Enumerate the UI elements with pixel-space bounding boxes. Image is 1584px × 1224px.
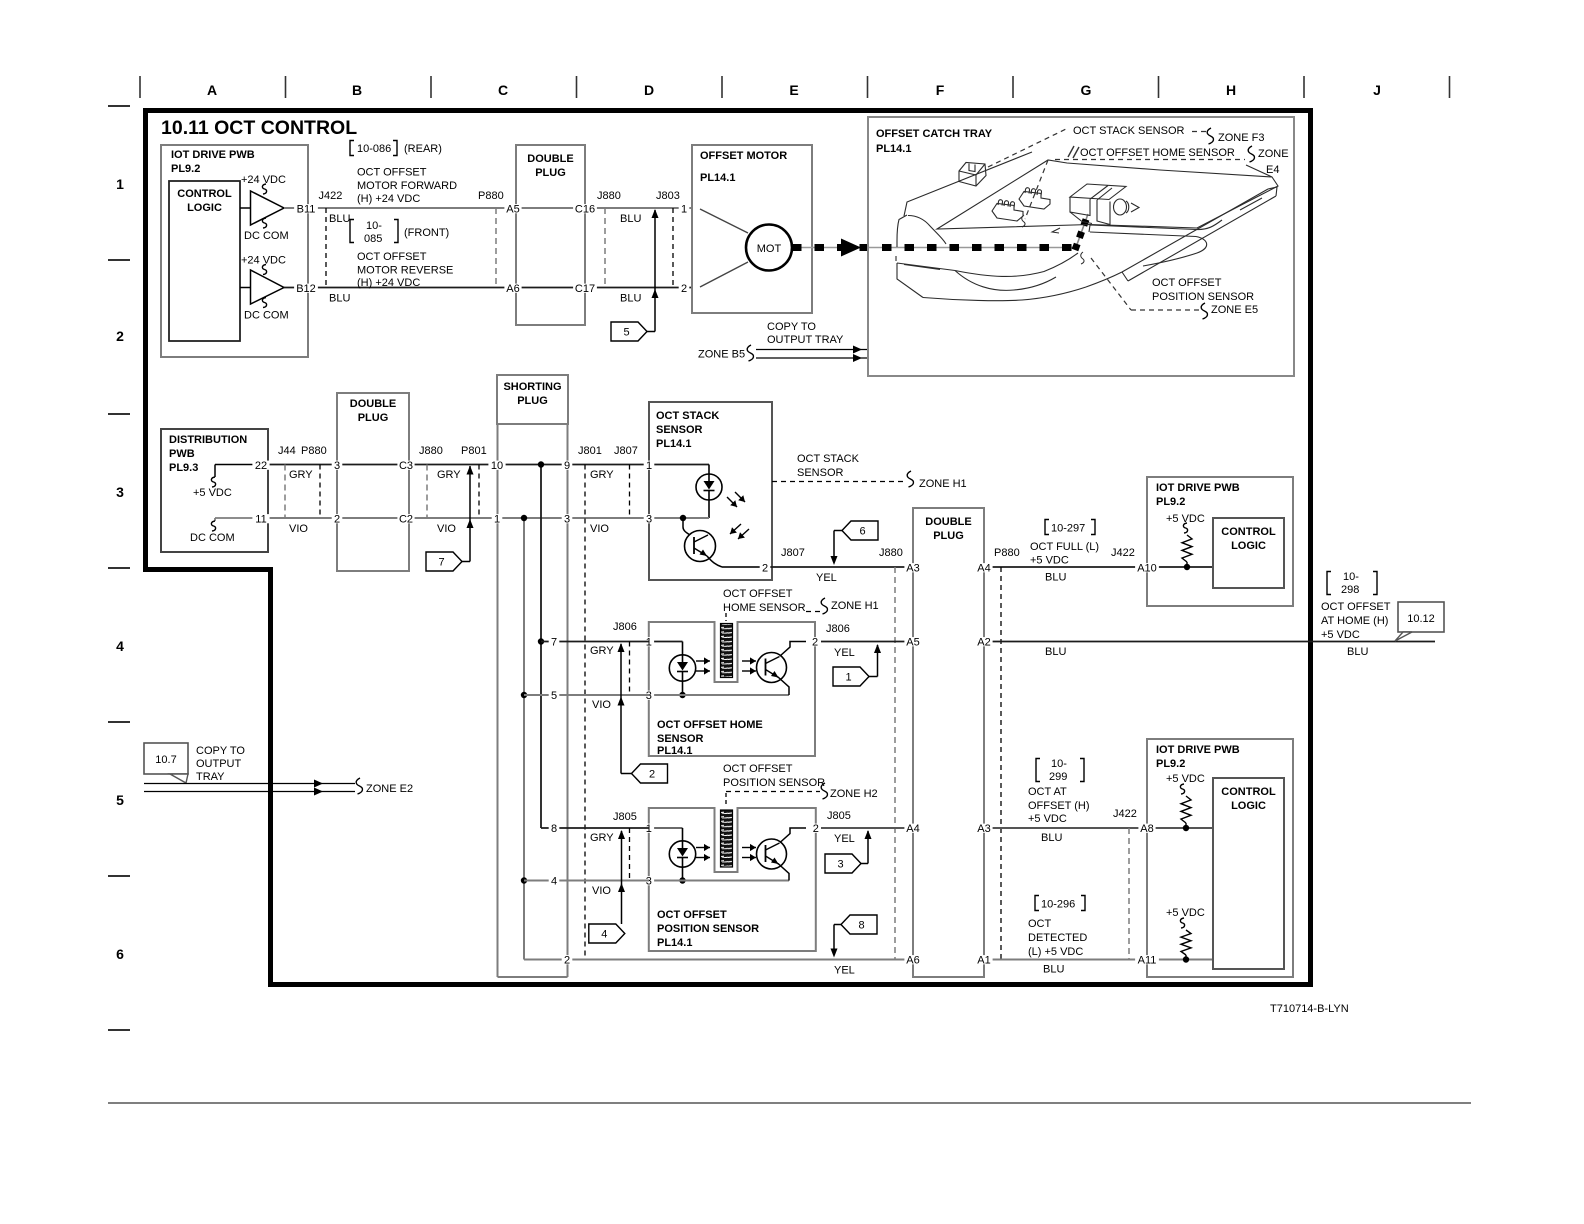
svg-text:J806: J806 (826, 623, 850, 635)
pin label 10 (488, 461, 505, 470)
fault bracket 10-296 (1035, 896, 1085, 911)
svg-text:10-296: 10-296 (1041, 899, 1075, 911)
home sensor light arrows (696, 657, 756, 674)
svg-text:LOGIC: LOGIC (1231, 800, 1266, 812)
long connector dash J801 (to row6) (584, 465, 586, 960)
pin label 5 (549, 691, 560, 700)
svg-text:BLU: BLU (329, 293, 350, 305)
control logic U1 box (169, 181, 240, 341)
svg-text:5: 5 (623, 327, 629, 339)
svg-text:5: 5 (116, 792, 124, 808)
svg-text:A5: A5 (506, 204, 519, 216)
diagram outer border (146, 111, 1311, 985)
flag 8 pointer (831, 915, 878, 958)
svg-text:G: G (1081, 82, 1092, 98)
pin label 2 (J803) (679, 284, 690, 293)
pin label B12 (294, 284, 318, 293)
svg-text:7: 7 (551, 637, 557, 649)
svg-text:VIO: VIO (592, 885, 611, 897)
svg-text:3: 3 (564, 514, 570, 526)
svg-text:OUTPUT: OUTPUT (196, 758, 242, 770)
svg-text:BLU: BLU (1043, 964, 1064, 976)
svg-text:DC COM: DC COM (244, 310, 289, 322)
svg-text:MOT: MOT (757, 243, 782, 255)
signal name OCT OFFSET MOTOR REVERSE (357, 251, 453, 289)
svg-text:VIO: VIO (437, 523, 456, 535)
pin label 3 (shorting plug right) (562, 514, 573, 523)
svg-text:E4: E4 (1266, 164, 1279, 176)
pin label 2 (position sensor) (811, 824, 822, 833)
row3 connector labels (278, 445, 638, 535)
mechanical drive dashed link to tray (792, 214, 1088, 257)
pin label 3 (stack sensor) (644, 514, 655, 523)
signal name OCT OFFSET MOTOR FORWARD (357, 167, 457, 206)
pin label 7 (549, 637, 560, 646)
svg-text:A10: A10 (1137, 563, 1157, 575)
svg-text:COPY TO: COPY TO (767, 321, 816, 333)
pin label A5 (row4) (904, 637, 921, 646)
svg-text:1: 1 (646, 460, 652, 472)
svg-text:+5 VDC: +5 VDC (1030, 555, 1069, 567)
svg-text:YEL: YEL (816, 572, 837, 584)
svg-text:4: 4 (551, 876, 557, 888)
svg-text:ZONE H1: ZONE H1 (831, 600, 879, 612)
svg-text:CONTROL: CONTROL (1221, 786, 1276, 798)
svg-text:A11: A11 (1138, 955, 1157, 967)
off-page reference 10.12 (1395, 602, 1444, 641)
pin label 1 (J803) (679, 204, 690, 213)
svg-text:A4: A4 (906, 823, 919, 835)
svg-text:10.12: 10.12 (1407, 613, 1435, 625)
svg-text:3: 3 (837, 859, 843, 871)
control logic U3 box (1213, 778, 1284, 969)
connector dashes J422/P880/J880/J803 rows1-2 (326, 208, 673, 288)
svg-text:J801: J801 (578, 445, 602, 457)
pin label A1 (975, 955, 992, 964)
off-page reference 10.7 (144, 743, 188, 783)
long connector dash P880 (black) (1000, 567, 1002, 960)
pull-up resistor R3 (1166, 907, 1205, 963)
driver amp A1 (B11) (240, 174, 289, 242)
wire B11 motor forward (gray) (284, 207, 692, 209)
row separator dashes (108, 106, 130, 1030)
svg-text:OCT STACK SENSOR: OCT STACK SENSOR (1073, 125, 1185, 137)
svg-text:ZONE: ZONE (1258, 148, 1289, 160)
svg-text:OCT OFFSET: OCT OFFSET (1152, 277, 1222, 289)
IOT DRIVE PWB box (rows5-6 right) (1147, 739, 1293, 977)
svg-text:MOTOR FORWARD: MOTOR FORWARD (357, 180, 457, 192)
svg-text:J422: J422 (1111, 547, 1135, 559)
svg-text:IOT DRIVE PWB: IOT DRIVE PWB (1156, 482, 1240, 494)
svg-text:PWB: PWB (169, 448, 195, 460)
tray label OCT STACK SENSOR + zone F3 (988, 125, 1264, 167)
svg-text:E: E (789, 82, 798, 98)
svg-text:PL14.1: PL14.1 (876, 143, 911, 155)
svg-text:A2: A2 (977, 637, 990, 649)
svg-text:C16: C16 (575, 204, 595, 216)
pin label 2 (shorting plug bottom) (562, 955, 573, 964)
svg-text:P880: P880 (301, 445, 327, 457)
svg-text:OCT FULL (L): OCT FULL (L) (1030, 541, 1099, 553)
signal name OCT FULL (1030, 541, 1099, 567)
flag 6 pointer (831, 521, 879, 565)
position sensor flag actuator (hatched) (721, 810, 733, 867)
svg-text:HOME SENSOR: HOME SENSOR (723, 602, 806, 614)
svg-text:ZONE H2: ZONE H2 (830, 788, 878, 800)
bottom rule (108, 1102, 1471, 1104)
svg-text:PL14.1: PL14.1 (656, 438, 691, 450)
svg-text:C2: C2 (399, 514, 413, 526)
svg-text:7: 7 (438, 557, 444, 569)
svg-text:OFFSET MOTOR: OFFSET MOTOR (700, 150, 787, 162)
stack sensor LED D1 (649, 465, 722, 519)
svg-text:22: 22 (255, 460, 267, 472)
svg-text:MOTOR REVERSE: MOTOR REVERSE (357, 265, 453, 277)
stack sensor received light arrows (730, 524, 749, 539)
fault bracket 10-297 (1045, 520, 1095, 535)
svg-text:085: 085 (364, 233, 382, 245)
tray label OCT OFFSET POSITION SENSOR + zone E5 (1091, 258, 1258, 319)
copy to output tray (zone B5) paper path (698, 321, 868, 362)
svg-text:5: 5 (551, 690, 557, 702)
pull-up resistor R1 (1166, 513, 1205, 570)
stack sensor phototransistor Q1 (649, 515, 772, 567)
svg-text:OUTPUT TRAY: OUTPUT TRAY (767, 334, 844, 346)
svg-text:+5 VDC: +5 VDC (1166, 773, 1205, 785)
svg-text:ZONE H1: ZONE H1 (919, 478, 967, 490)
svg-text:J803: J803 (656, 190, 680, 202)
IOT DRIVE PWB box (row3 right) (1147, 477, 1293, 606)
zone label OCT OFFSET POSITION SENSOR H2 (723, 763, 878, 807)
svg-text:C: C (498, 82, 508, 98)
svg-text:+5 VDC: +5 VDC (1166, 907, 1205, 919)
svg-text:2: 2 (813, 823, 819, 835)
svg-text:4: 4 (116, 638, 124, 654)
svg-text:J44: J44 (278, 445, 296, 457)
svg-text:ZONE E2: ZONE E2 (366, 783, 413, 795)
position sensor LED D3 (649, 828, 696, 884)
svg-text:PLUG: PLUG (535, 167, 566, 179)
svg-text:LOGIC: LOGIC (1231, 540, 1266, 552)
pin label A4 (row5) (904, 824, 921, 833)
DOUBLE PLUG box row3 (337, 393, 409, 571)
svg-text:SENSOR: SENSOR (657, 733, 704, 745)
svg-text:298: 298 (1341, 584, 1359, 596)
svg-text:OCT: OCT (1028, 918, 1052, 930)
svg-text:(FRONT): (FRONT) (404, 227, 449, 239)
wire labels row2 (329, 293, 641, 305)
svg-text:YEL: YEL (834, 965, 855, 977)
svg-text:POSITION SENSOR: POSITION SENSOR (657, 923, 759, 935)
svg-text:DISTRIBUTION: DISTRIBUTION (169, 434, 247, 446)
svg-text:A5: A5 (906, 637, 919, 649)
svg-text:A3: A3 (977, 823, 990, 835)
OCT STACK SENSOR box (649, 402, 772, 580)
flag 3 pointer (825, 830, 872, 873)
pin label 3 (double plug row3) (332, 461, 343, 470)
svg-text:YEL: YEL (834, 647, 855, 659)
motor MOT circle (700, 209, 792, 287)
svg-text:BLU: BLU (1045, 646, 1066, 658)
svg-text:AT HOME (H): AT HOME (H) (1321, 615, 1388, 627)
wire +5VDC row3 (black) (268, 464, 649, 466)
svg-text:PLUG: PLUG (358, 412, 389, 424)
svg-text:P880: P880 (478, 190, 504, 202)
svg-text:OCT OFFSET: OCT OFFSET (357, 167, 427, 179)
svg-text:A1: A1 (977, 955, 990, 967)
pin label 2 (stack sensor) (760, 563, 771, 572)
column tick marks (140, 76, 1450, 98)
fault bracket 10-086 (REAR) (350, 141, 442, 156)
svg-text:DOUBLE: DOUBLE (527, 153, 573, 165)
wire OCT OFFSET AT HOME J806-2 (black) (821, 623, 1435, 659)
svg-text:TRAY: TRAY (196, 771, 225, 783)
svg-text:BLU: BLU (1045, 572, 1066, 584)
labels on OCT FULL wire (781, 547, 1135, 584)
svg-text:2: 2 (649, 769, 655, 781)
DOUBLE PLUG box column G (913, 508, 984, 977)
svg-text:BLU: BLU (329, 213, 350, 225)
svg-text:1: 1 (494, 514, 500, 526)
svg-text:SENSOR: SENSOR (797, 467, 844, 479)
svg-text:VIO: VIO (289, 523, 308, 535)
pin label A6 (504, 284, 521, 293)
wire DC COM row3 (gray) (268, 517, 649, 519)
DISTRIBUTION PWB box (161, 429, 268, 552)
svg-text:BLU: BLU (620, 213, 641, 225)
svg-text:F: F (936, 82, 945, 98)
svg-text:J422: J422 (1113, 808, 1137, 820)
copy to output tray text (196, 745, 245, 783)
svg-text:OCT AT: OCT AT (1028, 786, 1067, 798)
pin label A5 (double plug) (504, 204, 521, 213)
svg-text:10-086: 10-086 (357, 143, 391, 155)
svg-text:OCT STACK: OCT STACK (797, 453, 860, 465)
svg-text:PL9.3: PL9.3 (169, 462, 198, 474)
svg-text:PL14.1: PL14.1 (657, 745, 692, 757)
svg-text:A: A (207, 82, 217, 98)
svg-text:10-: 10- (1051, 758, 1067, 770)
svg-text:DOUBLE: DOUBLE (350, 398, 396, 410)
svg-text:OCT OFFSET: OCT OFFSET (1321, 601, 1391, 613)
flag 7 pointer (426, 466, 474, 572)
svg-text:VIO: VIO (590, 523, 609, 535)
svg-text:ZONE F3: ZONE F3 (1218, 132, 1264, 144)
svg-text:SHORTING: SHORTING (503, 381, 561, 393)
flag 5 pointer (611, 209, 659, 341)
svg-text:6: 6 (116, 946, 124, 962)
fault bracket 10-298 (1327, 571, 1377, 596)
svg-text:A6: A6 (506, 283, 519, 295)
pin label B11 (294, 204, 318, 213)
driver amp A2 (B12) (240, 255, 289, 322)
control logic U2 box (1213, 518, 1284, 588)
pin label 1 (shorting plug left) (492, 514, 503, 523)
svg-text:8: 8 (551, 823, 557, 835)
svg-text:A8: A8 (1140, 823, 1153, 835)
svg-text:J422: J422 (319, 190, 343, 202)
svg-text:POSITION SENSOR: POSITION SENSOR (1152, 291, 1254, 303)
OCT OFFSET HOME SENSOR box (649, 622, 815, 757)
svg-text:BLU: BLU (620, 293, 641, 305)
svg-text:2: 2 (762, 563, 768, 575)
svg-text:P880: P880 (994, 547, 1020, 559)
pin label 8 (549, 824, 560, 833)
DC COM source symbol (190, 518, 253, 544)
svg-text:GRY: GRY (590, 645, 614, 657)
paper path to zone E2 (144, 778, 413, 796)
svg-text:C3: C3 (399, 460, 413, 472)
svg-text:3: 3 (646, 514, 652, 526)
long connector dash J880 (gray) (894, 567, 896, 960)
pin label 9 (562, 461, 573, 470)
SHORTING PLUG label box (497, 375, 568, 424)
svg-text:A3: A3 (906, 563, 919, 575)
svg-text:1: 1 (646, 823, 652, 835)
svg-text:OCT OFFSET: OCT OFFSET (657, 909, 727, 921)
OFFSET MOTOR box (692, 145, 812, 313)
pin label 1 (stack sensor) (644, 461, 655, 470)
svg-text:SENSOR: SENSOR (656, 424, 703, 436)
fault bracket 10-085 (FRONT) (350, 220, 449, 246)
pin label 1 (position sensor) (644, 824, 655, 833)
svg-text:P801: P801 (461, 445, 487, 457)
svg-text:J805: J805 (827, 810, 851, 822)
wire OCT DETECTED row6 (gray) (524, 960, 1213, 977)
svg-text:OCT OFFSET: OCT OFFSET (357, 251, 427, 263)
svg-text:DOUBLE: DOUBLE (925, 516, 971, 528)
svg-text:1: 1 (646, 637, 652, 649)
svg-text:B12: B12 (296, 283, 316, 295)
signal name OCT DETECTED (1028, 918, 1087, 958)
svg-text:J805: J805 (613, 811, 637, 823)
svg-text:PL9.2: PL9.2 (171, 163, 200, 175)
svg-text:H: H (1226, 82, 1236, 98)
pin label 3 (home sensor) (644, 691, 655, 700)
svg-text:T710714-B-LYN: T710714-B-LYN (1270, 1003, 1349, 1015)
svg-text:CONTROL: CONTROL (177, 188, 232, 200)
svg-text:2: 2 (334, 514, 340, 526)
svg-text:10: 10 (491, 460, 503, 472)
wire OCT FULL J807-2 to A10 (black) (772, 566, 1213, 568)
connector dash J422 (gray) (1128, 828, 1130, 960)
stack sensor emitted light arrows (727, 492, 745, 507)
pin label C2 (397, 514, 414, 523)
shorting plug internal wire (GRY chain) (540, 465, 542, 829)
pin label A2 (row4) (975, 637, 992, 646)
svg-text:OCT OFFSET HOME SENSOR: OCT OFFSET HOME SENSOR (1080, 147, 1235, 159)
home sensor LED D2 (649, 642, 696, 699)
pin label C16 (573, 204, 597, 213)
svg-text:J807: J807 (781, 547, 805, 559)
svg-text:+5 VDC: +5 VDC (193, 487, 232, 499)
IOT DRIVE PWB (top-left) box (161, 145, 308, 357)
svg-text:1: 1 (116, 176, 124, 192)
flag 1 pointer (833, 644, 881, 686)
svg-text:BLU: BLU (1041, 832, 1062, 844)
connector dashes row3 (285, 465, 630, 519)
svg-text:COPY TO: COPY TO (196, 745, 245, 757)
svg-text:CONTROL: CONTROL (1221, 526, 1276, 538)
OCT OFFSET POSITION SENSOR box (649, 808, 816, 951)
svg-text:GRY: GRY (590, 469, 614, 481)
pin label A8 (1138, 824, 1155, 833)
tray isometric sketch (896, 152, 1278, 301)
svg-text:2: 2 (564, 955, 570, 967)
svg-text:J807: J807 (614, 445, 638, 457)
pin label A4 (row3) (975, 563, 992, 572)
home sensor flag actuator (hatched) (721, 624, 733, 678)
svg-text:D: D (644, 82, 654, 98)
pin label 22 (252, 461, 269, 470)
+5 VDC source symbol (193, 465, 253, 500)
svg-text:1: 1 (845, 672, 851, 684)
pin label C17 (573, 284, 597, 293)
svg-text:J806: J806 (613, 621, 637, 633)
svg-text:+5 VDC: +5 VDC (1028, 813, 1067, 825)
pin label A3 (row3) (904, 563, 921, 572)
tray label OCT OFFSET HOME SENSOR + zone E4 (1025, 146, 1289, 219)
svg-text:ZONE B5: ZONE B5 (698, 349, 745, 361)
svg-text:OFFSET (H): OFFSET (H) (1028, 800, 1090, 812)
svg-text:3: 3 (116, 484, 124, 500)
wire B12 motor reverse (black) (284, 287, 692, 289)
svg-text:DC COM: DC COM (244, 230, 289, 242)
svg-text:PLUG: PLUG (933, 530, 964, 542)
svg-text:VIO: VIO (592, 699, 611, 711)
signal name OCT OFFSET AT HOME (1321, 601, 1391, 658)
position sensor phototransistor Q3 (649, 828, 806, 881)
svg-text:8: 8 (858, 920, 864, 932)
svg-text:10-297: 10-297 (1051, 523, 1085, 535)
svg-text:J880: J880 (419, 445, 443, 457)
junction dots shorting plug (521, 461, 544, 883)
svg-text:(H) +24 VDC: (H) +24 VDC (357, 193, 420, 205)
wire OCT AT OFFSET J805-2 (gray) (821, 808, 1213, 845)
svg-text:PL9.2: PL9.2 (1156, 496, 1185, 508)
zone label OCT OFFSET HOME SENSOR H1 (723, 588, 879, 621)
svg-text:A6: A6 (906, 955, 919, 967)
pin label A11 (1135, 955, 1159, 964)
svg-text:10.7: 10.7 (155, 754, 176, 766)
pin label A3 (row5) (975, 824, 992, 833)
svg-text:299: 299 (1049, 771, 1067, 783)
svg-text:GRY: GRY (590, 832, 614, 844)
svg-text:(L) +5 VDC: (L) +5 VDC (1028, 946, 1083, 958)
svg-text:J: J (1373, 82, 1381, 98)
column letters A-J (207, 82, 1381, 98)
svg-text:OCT OFFSET: OCT OFFSET (723, 763, 793, 775)
svg-text:IOT DRIVE PWB: IOT DRIVE PWB (171, 149, 255, 161)
shorting plug body outline (498, 424, 568, 977)
wire labels row1 (319, 190, 680, 225)
fault bracket 10-299 (1036, 758, 1084, 783)
shorting plug internal wire (VIO chain) (523, 518, 525, 960)
svg-text:PL9.2: PL9.2 (1156, 758, 1185, 770)
svg-text:11: 11 (255, 514, 266, 526)
svg-text:2: 2 (116, 328, 124, 344)
pin label 2 (double plug row3) (332, 514, 343, 523)
svg-text:IOT DRIVE PWB: IOT DRIVE PWB (1156, 744, 1240, 756)
svg-text:+5 VDC: +5 VDC (1321, 629, 1360, 641)
svg-text:(H) +24 VDC: (H) +24 VDC (357, 277, 420, 289)
pin label 3 (position sensor) (644, 876, 655, 885)
svg-text:DETECTED: DETECTED (1028, 932, 1087, 944)
svg-text:10-: 10- (366, 220, 382, 232)
svg-text:BLU: BLU (1347, 646, 1368, 658)
pull-up resistor R2 (1166, 773, 1205, 831)
position sensor light arrows (696, 844, 756, 861)
